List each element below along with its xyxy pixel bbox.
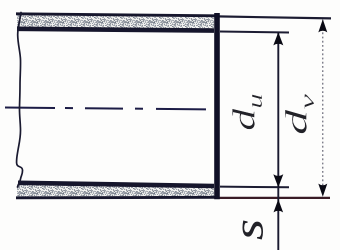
top wall outer surface line xyxy=(16,14,217,16)
dimension line d_v (vertical) xyxy=(322,20,324,196)
extension line from bottom inner surface (for d_u) xyxy=(220,186,289,189)
top wall hatch fill xyxy=(17,15,214,29)
top wall inner surface line xyxy=(17,29,214,31)
arrowhead d_u top (pointing up) xyxy=(273,32,283,45)
center line (dash-dot axis) xyxy=(5,108,214,110)
extension line from top inner surface (for d_u) xyxy=(220,32,289,33)
arrowhead d_u bottom (pointing down) xyxy=(273,174,283,187)
label d_u xyxy=(227,93,267,130)
arrowhead d_v bottom (pointing down) xyxy=(318,184,327,197)
extension line from top outer surface (for d_v) xyxy=(217,16,331,18)
arrowhead s (pointing up at outer wall) xyxy=(274,199,284,212)
label s xyxy=(225,219,272,240)
bottom wall hatch fill xyxy=(17,185,214,197)
bottom wall outer surface line xyxy=(16,196,217,199)
extension line from bottom outer surface (for d_v and s) xyxy=(217,197,330,199)
arrowhead d_v top (pointing up) xyxy=(318,19,327,32)
label d_v xyxy=(280,94,319,135)
break line (freehand wavy edge at left) xyxy=(17,13,23,188)
bottom wall inner surface line xyxy=(18,183,214,186)
pipe end face (thick vertical line) xyxy=(214,13,220,199)
svg-text:s: s xyxy=(225,219,272,240)
dimension line d_u (vertical, continues down as s dimension line) xyxy=(277,33,279,250)
